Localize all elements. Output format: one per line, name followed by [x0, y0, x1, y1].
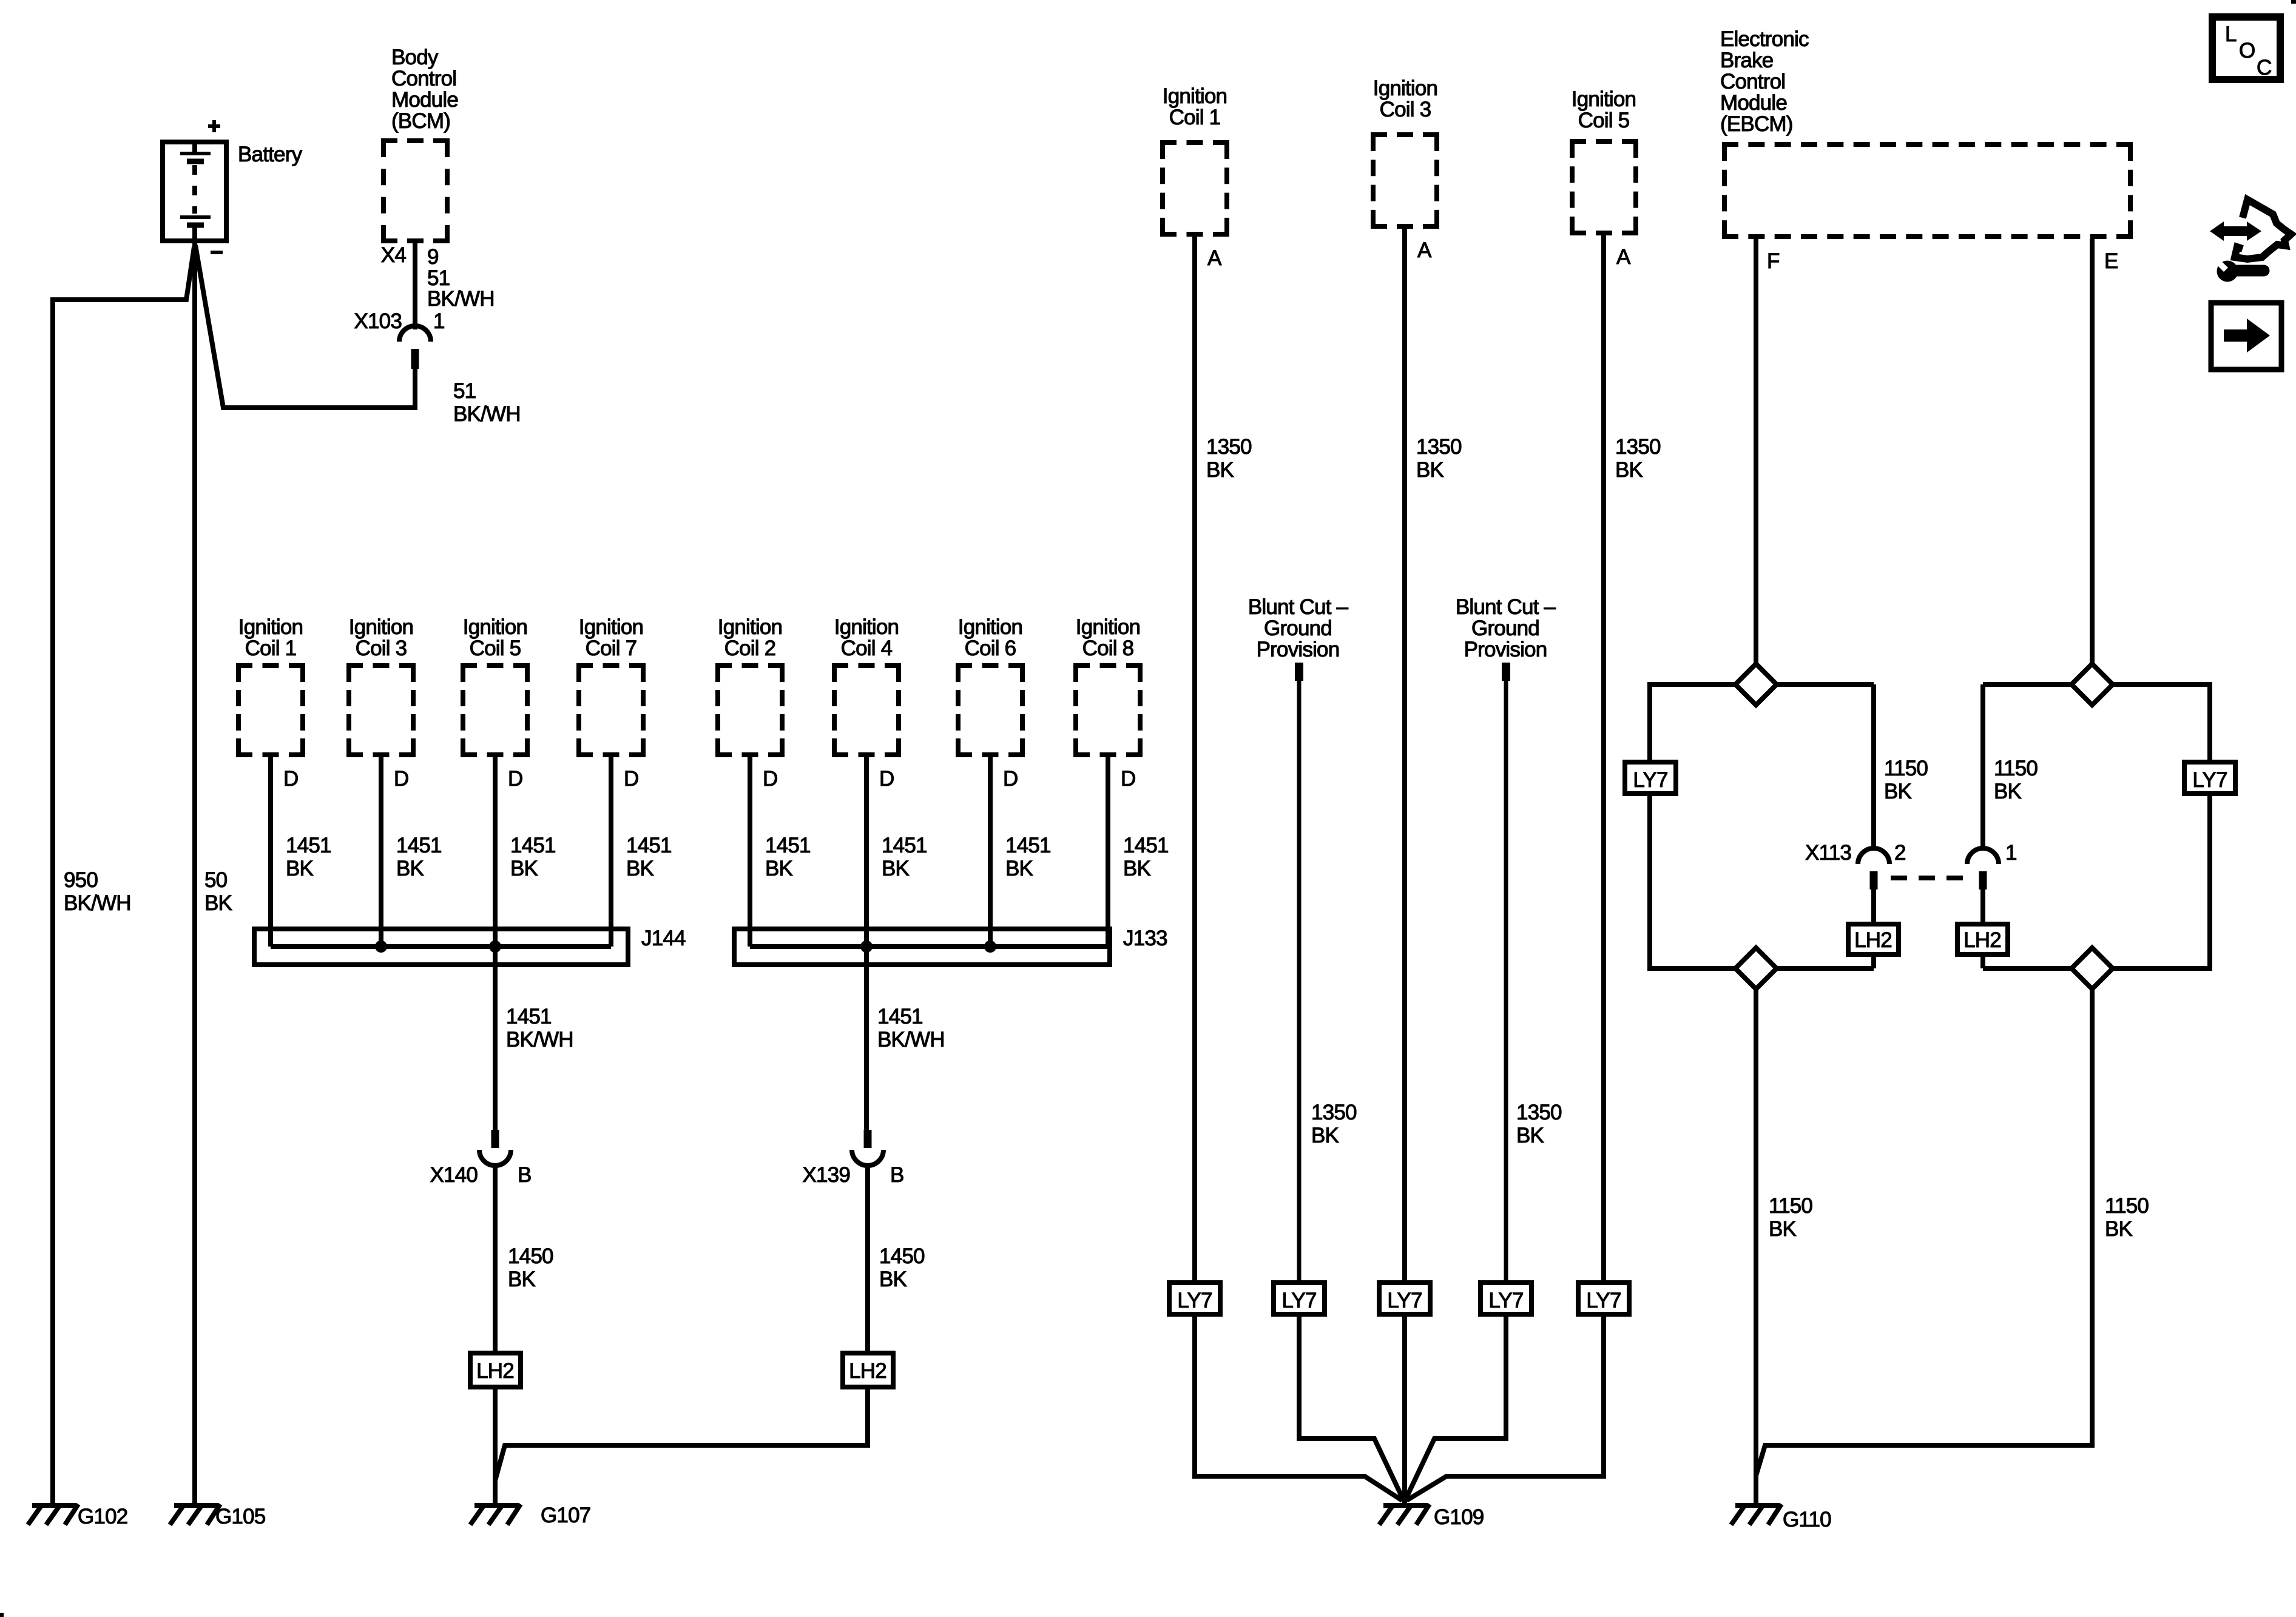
svg-text:Module: Module: [1720, 91, 1787, 115]
svg-text:Ignition: Ignition: [579, 615, 643, 639]
splice diamond (F bottom): [1735, 948, 1777, 989]
svg-text:A: A: [1417, 238, 1432, 262]
wire LH2 to bottom horizontal (E loop): [1980, 957, 1985, 968]
connector X113 pin2 (female arc): [1858, 848, 1889, 864]
svg-text:BK/WH: BK/WH: [877, 1028, 945, 1052]
wire blunt1 to LY7 (1350 BK): [1297, 681, 1302, 1283]
svg-text:Coil 1: Coil 1: [245, 636, 297, 660]
splice diamond (E top): [2071, 664, 2113, 705]
svg-text:X139: X139: [802, 1163, 850, 1187]
blunt cut terminal 1: [1295, 663, 1303, 681]
svg-text:G109: G109: [1434, 1505, 1484, 1529]
svg-text:Coil 6: Coil 6: [965, 636, 1016, 660]
svg-text:BK/WH: BK/WH: [64, 891, 131, 915]
svg-text:D: D: [763, 767, 777, 791]
svg-text:1350: 1350: [1516, 1101, 1562, 1124]
svg-text:1150: 1150: [1769, 1194, 1812, 1218]
connector X139 (female arc): [852, 1150, 883, 1166]
page corner artifact (bottom left): [0, 1613, 4, 1617]
svg-text:Blunt Cut –: Blunt Cut –: [1456, 595, 1556, 619]
blunt cut terminal 2: [1502, 663, 1510, 681]
wire E bottom diamond to G110 (1150 BK): [1756, 989, 2092, 1476]
ignition coil 3 (mid bank, dashed box): [346, 666, 416, 755]
wire X139 to LH2 (1450 BK): [865, 1163, 870, 1353]
svg-text:9: 9: [427, 245, 439, 269]
battery internal plates: [180, 142, 211, 242]
svg-text:BK: BK: [1123, 857, 1151, 880]
option box LH2 (E loop): [1957, 924, 2008, 954]
ground G102: [28, 1504, 78, 1525]
svg-text:Coil 5: Coil 5: [470, 636, 521, 660]
svg-text:BK: BK: [882, 857, 910, 880]
page corner artifact (top right): [2291, 0, 2296, 4]
wire X113 pin1 to LH2: [1980, 890, 1985, 924]
svg-text:Ignition: Ignition: [1163, 84, 1227, 108]
svg-text:Coil 3: Coil 3: [1380, 98, 1431, 121]
svg-text:D: D: [1121, 767, 1135, 791]
J144 internal bus: [271, 944, 611, 949]
svg-text:BK: BK: [510, 857, 538, 880]
svg-text:LY7: LY7: [1281, 1289, 1316, 1312]
svg-text:G107: G107: [541, 1504, 590, 1527]
connector X103 (male blade): [411, 349, 419, 369]
svg-text:51: 51: [453, 379, 476, 403]
wire top horizontal (E loop): [1983, 682, 2210, 687]
wire coil1-A to LY7 (1350 BK): [1192, 237, 1197, 1283]
svg-text:1451: 1451: [286, 834, 331, 857]
svg-text:Ignition: Ignition: [958, 615, 1022, 639]
junction dot (coil4 wire): [860, 940, 873, 953]
svg-text:B: B: [890, 1163, 904, 1187]
svg-text:LY7: LY7: [1488, 1289, 1523, 1312]
wire coil1 LY7 to G109: [1195, 1317, 1402, 1501]
svg-text:BK: BK: [1884, 780, 1912, 803]
svg-text:D: D: [879, 767, 894, 791]
svg-text:O: O: [2239, 39, 2255, 62]
splice pack J144 (box): [254, 929, 628, 965]
svg-text:Module: Module: [391, 88, 458, 112]
connector X140 (male blade): [491, 1130, 499, 1148]
svg-text:BK: BK: [1311, 1124, 1339, 1147]
svg-text:1451: 1451: [1005, 834, 1051, 857]
wire coil3-A to LY7 (1350 BK): [1402, 229, 1407, 1283]
ignition coil 3 (top, dashed box): [1371, 135, 1439, 226]
svg-text:Ignition: Ignition: [238, 615, 303, 639]
wire left vertical to X113 pin1: [1980, 684, 1985, 849]
wire left vertical (F loop): [1647, 682, 1652, 971]
svg-text:D: D: [283, 767, 298, 791]
svg-text:LY7: LY7: [1387, 1289, 1422, 1312]
svg-text:1451: 1451: [765, 834, 811, 857]
svg-text:Control: Control: [1720, 70, 1785, 93]
junction dot (coil5 wire): [489, 940, 501, 953]
wire blunt2 LY7 to G109: [1406, 1317, 1506, 1497]
svg-text:BK: BK: [1994, 780, 2022, 803]
splice diamond (F top): [1735, 664, 1777, 705]
svg-text:Blunt Cut –: Blunt Cut –: [1248, 595, 1349, 619]
svg-text:50: 50: [204, 868, 228, 892]
svg-text:1150: 1150: [2105, 1194, 2149, 1218]
LOC icon box: [2212, 17, 2280, 79]
svg-text:Ignition: Ignition: [463, 615, 527, 639]
svg-text:Coil 7: Coil 7: [586, 636, 637, 660]
wire blunt1 LY7 to G109: [1299, 1317, 1402, 1497]
svg-text:X103: X103: [354, 309, 402, 333]
svg-text:BK/WH: BK/WH: [506, 1028, 573, 1052]
connector X140 (female arc): [479, 1150, 511, 1166]
EBCM dashed box: [1722, 144, 2133, 237]
battery (box): [163, 142, 226, 241]
svg-text:BK: BK: [1416, 458, 1444, 482]
svg-text:D: D: [394, 767, 408, 791]
battery + mark: [208, 120, 220, 132]
wire LH2 to bottom horizontal (F loop): [1871, 957, 1876, 968]
forward arrow icon box: [2211, 303, 2281, 370]
svg-text:G102: G102: [78, 1505, 127, 1528]
ignition coil 4 (mid bank, dashed box): [832, 666, 901, 755]
svg-text:Brake: Brake: [1720, 49, 1773, 72]
svg-text:Electronic: Electronic: [1720, 27, 1809, 51]
diagnostic icon: wrench: [2217, 261, 2238, 282]
wire coil2-D to J133: [748, 757, 752, 947]
svg-text:950: 950: [64, 868, 98, 892]
wire right vertical (E loop): [2207, 682, 2212, 971]
wire coil4-D through J133 to X139: [864, 757, 869, 1131]
svg-text:Coil 2: Coil 2: [724, 636, 776, 660]
wire BCM pin 9 to X103: [413, 243, 417, 329]
diagnostic icon: outline shape: [2235, 200, 2291, 259]
svg-text:X113: X113: [1805, 841, 1851, 865]
ignition coil 6 (mid bank, dashed box): [956, 666, 1025, 755]
ground G110: [1731, 1504, 1781, 1525]
ignition coil 1 (top, dashed box): [1160, 143, 1229, 234]
wire battery neg to G105 (50 BK): [192, 243, 197, 1503]
connector X113 pin1 (male blade): [1979, 871, 1987, 890]
dashed jumper between X113 halves: [1891, 876, 1967, 880]
ignition coil 2 (mid bank, dashed box): [715, 666, 785, 755]
svg-text:LH2: LH2: [476, 1359, 514, 1383]
option box LY7 (coil5 wire): [1578, 1283, 1629, 1314]
option box LH2 (F loop): [1848, 924, 1899, 954]
wire coil5-A to LY7 (1350 BK): [1601, 235, 1606, 1283]
wire coil7-D to J144: [609, 757, 613, 947]
connector X113 pin1 (female arc): [1967, 848, 1999, 864]
svg-text:Provision: Provision: [1257, 638, 1340, 661]
svg-text:LY7: LY7: [1633, 768, 1667, 792]
svg-text:D: D: [1003, 767, 1018, 791]
svg-text:(BCM): (BCM): [391, 109, 450, 133]
svg-text:LH2: LH2: [1854, 928, 1892, 952]
svg-text:G105: G105: [215, 1505, 265, 1528]
svg-text:L: L: [2225, 22, 2237, 46]
svg-text:BK: BK: [508, 1268, 536, 1291]
wire X140 to LH2 (1450 BK): [493, 1163, 498, 1353]
svg-text:Coil 5: Coil 5: [1578, 109, 1630, 132]
svg-text:A: A: [1207, 246, 1222, 270]
wire coil3-D to J144: [379, 757, 383, 947]
option box LH2 (left): [470, 1353, 521, 1387]
svg-text:Ignition: Ignition: [1076, 615, 1140, 639]
diagnostic icon: double arrow: [2210, 221, 2261, 241]
svg-text:Coil 1: Coil 1: [1169, 106, 1221, 129]
wire EBCM pin F down: [1754, 239, 1758, 666]
svg-text:1451: 1451: [882, 834, 927, 857]
option box LH2 (right of pair): [843, 1353, 893, 1387]
wire LH2(X139) joining G107 drop: [495, 1389, 868, 1480]
junction dot (coil3 wire): [375, 940, 387, 953]
battery - mark: [211, 251, 223, 254]
right loop wires (1150 BK, pin E circuit): [1983, 682, 2212, 971]
svg-text:X140: X140: [430, 1163, 478, 1187]
BCM dashed box: [381, 141, 450, 241]
svg-text:BK: BK: [879, 1268, 907, 1291]
svg-text:1451: 1451: [1123, 834, 1169, 857]
svg-text:1350: 1350: [1615, 435, 1661, 459]
svg-text:1451: 1451: [510, 834, 556, 857]
wire battery neg to X103 (51 BK/WH): [195, 245, 415, 408]
svg-text:Battery: Battery: [238, 143, 303, 166]
svg-text:F: F: [1767, 249, 1780, 273]
ignition coil 7 (mid bank, dashed box): [576, 666, 646, 755]
svg-text:Provision: Provision: [1464, 638, 1547, 661]
svg-text:BK: BK: [1615, 458, 1643, 482]
svg-text:1: 1: [433, 309, 445, 333]
svg-text:Ignition: Ignition: [834, 615, 899, 639]
svg-text:Ignition: Ignition: [349, 615, 413, 639]
option box LY7 (coil1 wire): [1169, 1283, 1220, 1314]
svg-text:1451: 1451: [396, 834, 442, 857]
J133 internal bus: [750, 944, 1108, 949]
option box LY7 (E loop): [2184, 762, 2235, 794]
svg-text:BK: BK: [1516, 1124, 1544, 1147]
svg-text:BK: BK: [1005, 857, 1033, 880]
svg-text:Coil 8: Coil 8: [1082, 636, 1134, 660]
svg-text:1350: 1350: [1416, 435, 1462, 459]
svg-text:1150: 1150: [1994, 757, 2038, 780]
option box LY7 (blunt2 wire): [1481, 1283, 1531, 1314]
svg-text:BK/WH: BK/WH: [453, 402, 521, 426]
svg-text:1451: 1451: [626, 834, 672, 857]
connector X139 (male blade): [864, 1130, 872, 1148]
svg-text:E: E: [2104, 249, 2118, 273]
svg-text:A: A: [1616, 245, 1631, 269]
svg-text:C: C: [2257, 56, 2271, 79]
svg-text:LY7: LY7: [2192, 768, 2227, 792]
wire LH2 to G107: [493, 1389, 498, 1503]
svg-text:BK: BK: [1769, 1217, 1797, 1241]
left loop wires (1150 BK, pin F circuit): [1647, 682, 1874, 971]
svg-text:Ignition: Ignition: [1373, 76, 1437, 100]
wire coil3 LY7 to G109: [1402, 1317, 1407, 1503]
svg-text:G110: G110: [1783, 1508, 1831, 1531]
svg-text:BK: BK: [286, 857, 314, 880]
connector X103 (female arc): [399, 326, 431, 342]
svg-text:BK: BK: [204, 891, 232, 915]
splice diamond (E bottom): [2071, 948, 2113, 989]
svg-text:1: 1: [2005, 841, 2017, 865]
svg-text:1350: 1350: [1206, 435, 1252, 459]
ignition coil 5 (mid bank, dashed box): [461, 666, 530, 755]
ground G107: [470, 1504, 521, 1525]
svg-text:1450: 1450: [508, 1244, 553, 1268]
connector X113 pin2 (male blade): [1870, 871, 1878, 890]
svg-text:1150: 1150: [1884, 757, 1928, 780]
svg-text:(EBCM): (EBCM): [1720, 112, 1793, 136]
svg-text:Control: Control: [391, 67, 456, 90]
svg-text:LY7: LY7: [1586, 1289, 1621, 1312]
svg-text:1450: 1450: [879, 1244, 925, 1268]
svg-text:Coil 3: Coil 3: [356, 636, 407, 660]
svg-text:Coil 4: Coil 4: [841, 636, 893, 660]
svg-text:LH2: LH2: [849, 1359, 886, 1383]
wire battery neg to G102 (950 BK/WH): [53, 247, 194, 1503]
svg-text:2: 2: [1894, 841, 1906, 865]
svg-text:LY7: LY7: [1177, 1289, 1212, 1312]
ground G109: [1379, 1504, 1430, 1525]
svg-text:J144: J144: [641, 927, 686, 950]
wire coil8-D to J133: [1106, 757, 1110, 947]
wire bottom horizontal (F loop): [1647, 966, 1874, 971]
svg-text:X4: X4: [381, 243, 407, 267]
svg-text:BK: BK: [1206, 458, 1234, 482]
svg-text:LH2: LH2: [1963, 928, 2001, 952]
forward arrow: [2224, 329, 2248, 342]
ignition coil 8 (mid bank, dashed box): [1073, 666, 1143, 755]
svg-text:Ignition: Ignition: [1572, 87, 1636, 111]
ignition coil 1 (mid bank, dashed box): [236, 666, 305, 755]
svg-text:Ground: Ground: [1264, 616, 1332, 640]
option box LY7 (blunt1 wire): [1274, 1283, 1325, 1314]
wire coil5-D through J144 to X140: [493, 757, 498, 1131]
wire coil6-D to J133: [988, 757, 993, 947]
wire bottom horizontal (E loop): [1983, 966, 2212, 971]
splice pack J133 (box): [734, 929, 1110, 965]
svg-text:D: D: [508, 767, 522, 791]
wire top horizontal (F loop): [1650, 682, 1874, 687]
svg-text:B: B: [518, 1163, 532, 1187]
junction dot (coil6 wire): [984, 940, 996, 953]
ignition coil 5 (top, dashed box): [1570, 141, 1638, 233]
wire blunt2 to LY7 (1350 BK): [1504, 681, 1508, 1283]
wire right vertical to X113 pin2: [1871, 684, 1876, 849]
svg-text:BK/WH: BK/WH: [427, 287, 495, 311]
wire coil1-D to J144: [268, 757, 273, 947]
svg-text:1350: 1350: [1311, 1101, 1357, 1124]
wire EBCM pin E down: [2090, 239, 2095, 666]
option box LY7 (F loop): [1625, 762, 1676, 794]
svg-text:J133: J133: [1123, 927, 1167, 950]
svg-text:BK: BK: [626, 857, 654, 880]
svg-text:BK: BK: [396, 857, 424, 880]
svg-text:1451: 1451: [506, 1005, 552, 1028]
svg-text:D: D: [624, 767, 638, 791]
svg-text:BK: BK: [765, 857, 793, 880]
wire X113 pin2 to LH2: [1871, 890, 1876, 924]
svg-text:Ground: Ground: [1471, 616, 1539, 640]
svg-text:Ignition: Ignition: [718, 615, 782, 639]
wire coil5 LY7 to G109: [1406, 1317, 1604, 1501]
svg-text:BK: BK: [2105, 1217, 2133, 1241]
svg-text:1451: 1451: [877, 1005, 923, 1028]
ground G105: [170, 1504, 220, 1525]
option box LY7 (coil3 wire): [1379, 1283, 1430, 1314]
svg-text:Body: Body: [391, 46, 439, 69]
wire F bottom diamond to G110 (1150 BK): [1754, 989, 1758, 1503]
